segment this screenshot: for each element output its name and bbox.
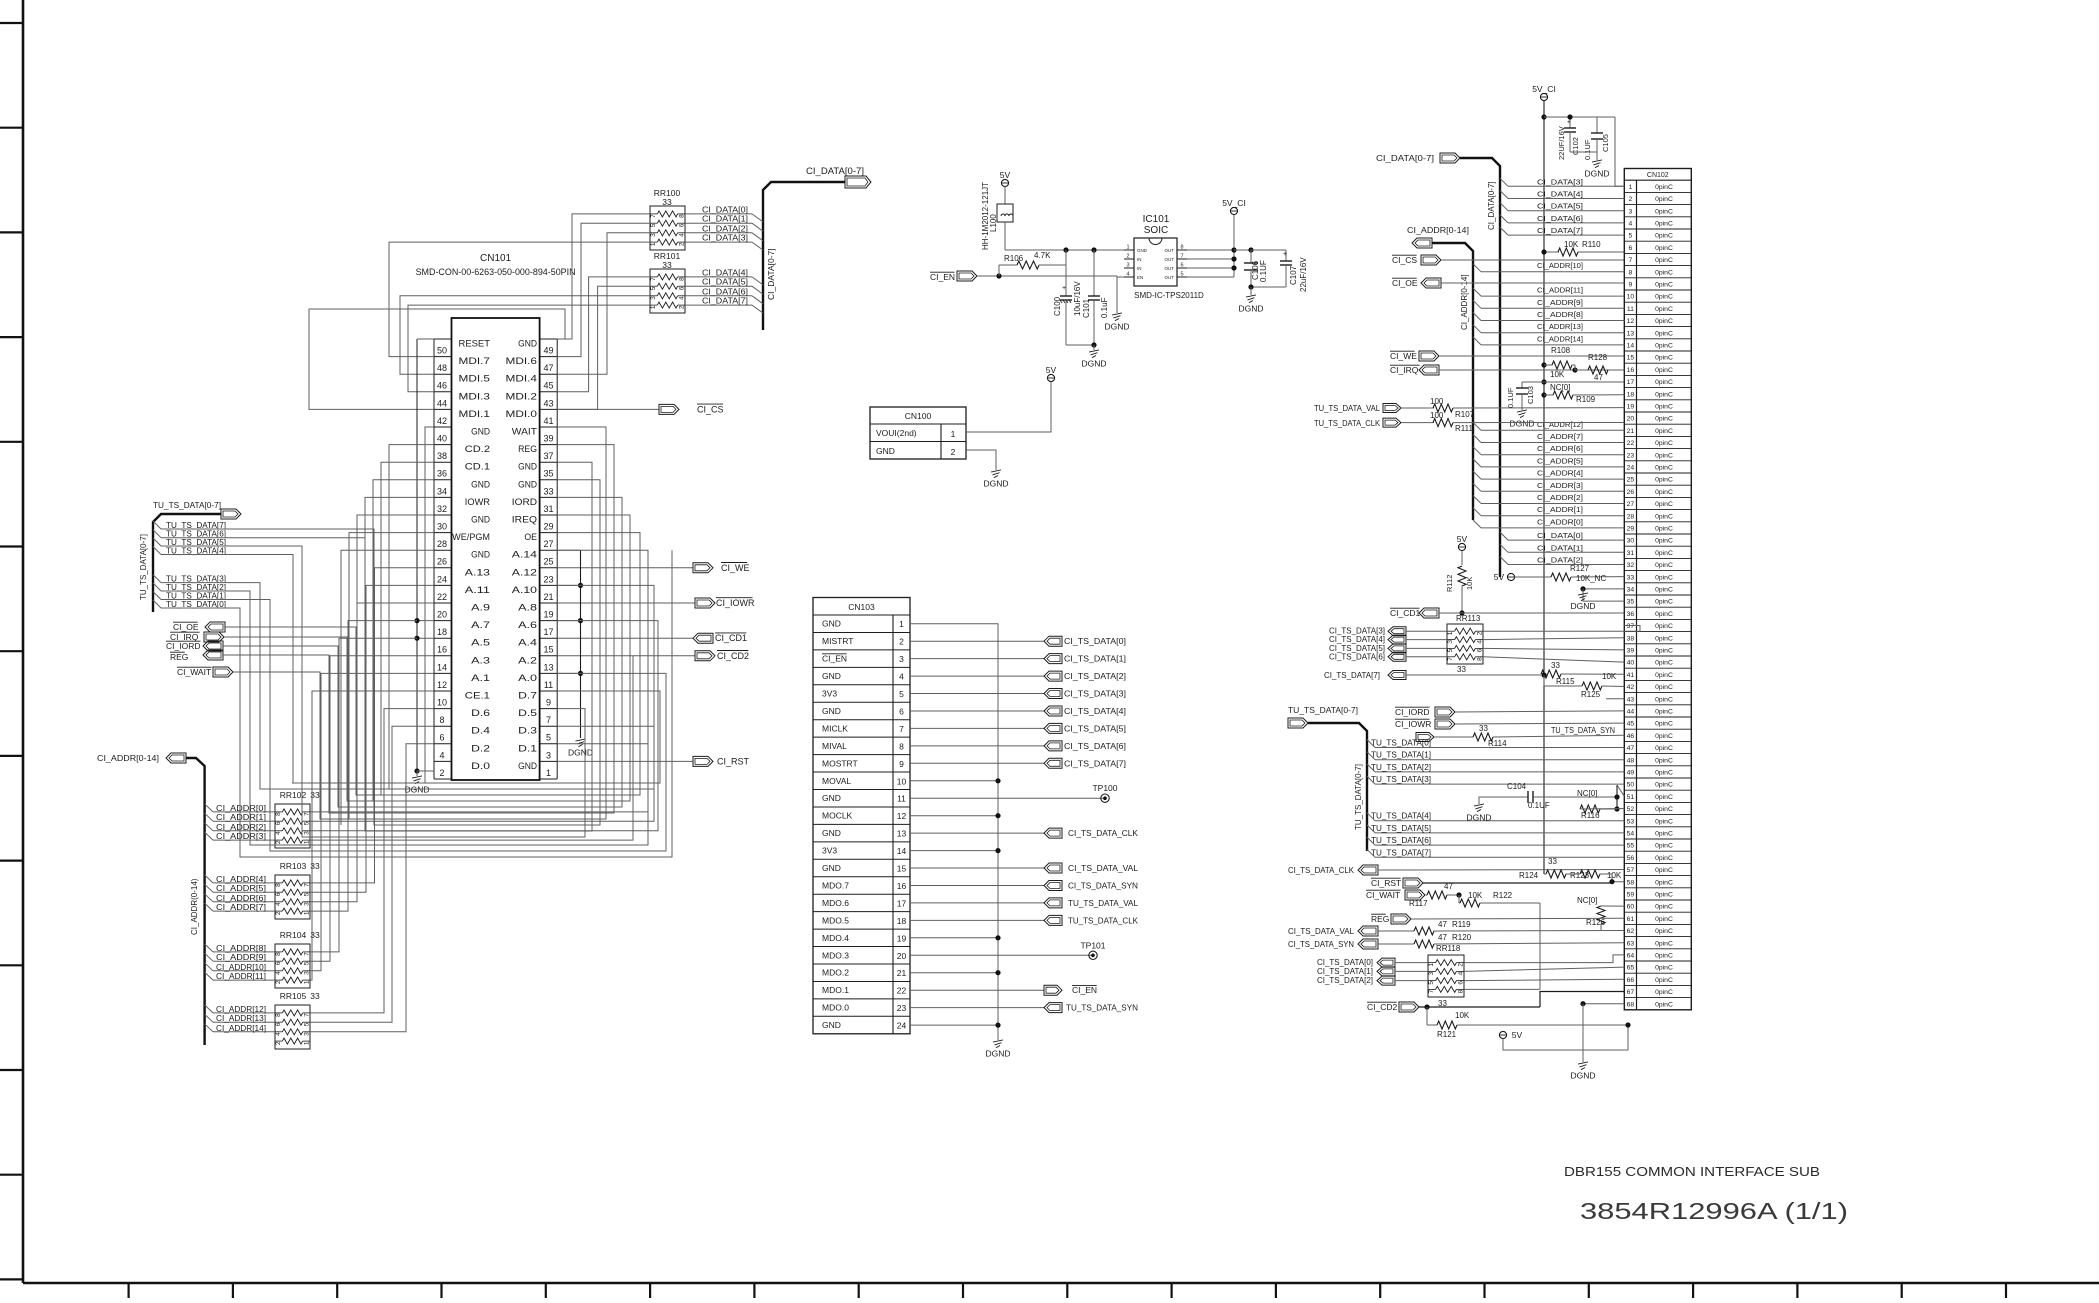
svg-text:0pinC: 0pinC <box>1655 294 1673 301</box>
svg-text:CI_TS_DATA[4]: CI_TS_DATA[4] <box>1329 635 1385 644</box>
svg-text:CI_DATA[0-7]: CI_DATA[0-7] <box>806 166 864 176</box>
svg-text:CI_ADDR[8]: CI_ADDR[8] <box>216 944 266 953</box>
svg-text:12: 12 <box>1627 318 1635 325</box>
svg-text:CI_RST: CI_RST <box>1371 878 1401 888</box>
svg-text:TU_TS_DATA[6]: TU_TS_DATA[6] <box>1371 836 1431 845</box>
wire CI_ADDR[4] to CN102 pin 25 <box>1473 469 1624 480</box>
svg-text:CI_DATA[4]: CI_DATA[4] <box>702 268 748 277</box>
svg-text:DGND: DGND <box>1570 601 1595 611</box>
svg-text:GND: GND <box>1137 248 1148 253</box>
net arrow CI_IOWR <box>557 598 755 608</box>
net arrow CI_EN output <box>910 985 1097 995</box>
svg-text:CI_ADDR[0-14]: CI_ADDR[0-14] <box>97 753 159 763</box>
svg-text:0pinC: 0pinC <box>1655 684 1673 691</box>
svg-text:D.7: D.7 <box>518 691 537 701</box>
svg-text:0.1UF: 0.1UF <box>1583 139 1592 160</box>
svg-text:A.9: A.9 <box>471 603 490 613</box>
wire TU_TS_DATA[7] <box>153 521 226 530</box>
svg-text:CI_DATA[6]: CI_DATA[6] <box>1537 214 1583 223</box>
svg-text:8: 8 <box>1629 269 1633 276</box>
svg-text:5: 5 <box>304 892 311 896</box>
svg-text:CI_DATA[7]: CI_DATA[7] <box>1537 226 1583 235</box>
svg-text:MDO.6: MDO.6 <box>822 898 849 908</box>
test point TP101 <box>910 940 1106 959</box>
svg-text:0pinC: 0pinC <box>1655 233 1673 240</box>
ground DGND below CN101 left <box>404 771 429 795</box>
svg-text:CI_DATA[7]: CI_DATA[7] <box>702 297 748 306</box>
net arrow CI_CS right <box>1392 255 1624 265</box>
capacitor C100 10uF/16V <box>1053 250 1082 345</box>
wire CI_DATA[4] from RR101 <box>685 268 763 285</box>
svg-text:7: 7 <box>1180 254 1183 260</box>
net arrow TU_TS_DATA_VAL <box>910 898 1138 908</box>
svg-text:CI_TS_DATA_SYN: CI_TS_DATA_SYN <box>1288 939 1354 949</box>
svg-text:3: 3 <box>1447 640 1454 644</box>
svg-text:0pinC: 0pinC <box>1655 806 1673 813</box>
svg-text:19: 19 <box>1627 404 1635 411</box>
svg-text:TU_TS_DATA[1]: TU_TS_DATA[1] <box>1371 751 1431 760</box>
svg-text:CI_TS_DATA[7]: CI_TS_DATA[7] <box>1324 671 1380 680</box>
power 5V_CI right of IC101 <box>1222 198 1246 277</box>
svg-text:3: 3 <box>304 902 311 906</box>
svg-text:R121: R121 <box>1437 1030 1457 1039</box>
svg-text:TU_TS_DATA[0-7]: TU_TS_DATA[0-7] <box>139 534 148 600</box>
svg-text:MDI.1: MDI.1 <box>459 409 491 419</box>
resistor R107 100 TU_TS_DATA_VAL <box>1314 397 1624 419</box>
svg-text:CI_DATA[0-7]: CI_DATA[0-7] <box>1487 181 1496 230</box>
svg-text:CI_RST: CI_RST <box>717 756 750 766</box>
svg-text:0pinC: 0pinC <box>1655 391 1673 398</box>
bus CI_DATA[0-7] right net arrow <box>1376 153 1500 577</box>
svg-text:8: 8 <box>679 214 686 218</box>
svg-text:14: 14 <box>437 662 447 672</box>
resistor R124 R123 33 10K <box>1519 857 1624 884</box>
resistor R110 10K <box>1541 240 1624 256</box>
net arrow CI_IRQ left <box>170 632 224 642</box>
wire CI_ADDR[9] tap <box>205 953 275 962</box>
svg-text:0pinC: 0pinC <box>1655 831 1673 838</box>
svg-text:27: 27 <box>1627 501 1635 508</box>
svg-text:7: 7 <box>650 214 657 218</box>
svg-text:CI_CS: CI_CS <box>1392 255 1417 265</box>
svg-text:R124: R124 <box>1519 871 1539 880</box>
svg-text:22: 22 <box>437 592 447 602</box>
svg-text:TU_TS_DATA[4]: TU_TS_DATA[4] <box>1371 812 1431 821</box>
wire MDI bus RR101 to CN101 <box>400 277 650 410</box>
svg-text:VOUI(2nd): VOUI(2nd) <box>876 428 917 438</box>
svg-text:CI_ADDR[4]: CI_ADDR[4] <box>216 875 266 884</box>
svg-text:MIVAL: MIVAL <box>822 741 847 751</box>
svg-text:CI_ADDR[3]: CI_ADDR[3] <box>216 832 266 841</box>
svg-text:51: 51 <box>1627 794 1635 801</box>
svg-text:47: 47 <box>1627 745 1635 752</box>
svg-text:TU_TS_DATA[7]: TU_TS_DATA[7] <box>1371 848 1431 857</box>
svg-text:5: 5 <box>304 821 311 825</box>
svg-text:CI_ADDR[2]: CI_ADDR[2] <box>216 823 266 832</box>
ground DGND below C100/C101 <box>1066 342 1107 368</box>
svg-text:14: 14 <box>1627 343 1635 350</box>
svg-text:0pinC: 0pinC <box>1655 269 1673 276</box>
svg-text:47: 47 <box>1594 373 1603 382</box>
wire TU_TS_DATA[4] to CN102 pin 53 <box>1367 812 1624 821</box>
svg-text:RR113: RR113 <box>1456 614 1481 623</box>
svg-text:R120: R120 <box>1452 933 1472 942</box>
svg-text:5: 5 <box>650 286 657 290</box>
wire CI_ADDR[11] tap <box>205 972 275 981</box>
svg-text:WAIT: WAIT <box>512 427 538 437</box>
svg-text:SOIC: SOIC <box>1144 225 1168 236</box>
svg-text:CI_TS_DATA_CLK: CI_TS_DATA_CLK <box>1068 828 1138 838</box>
svg-text:0pinC: 0pinC <box>1655 648 1673 655</box>
svg-text:CI_ADDR[1]: CI_ADDR[1] <box>216 813 266 822</box>
ground DGND top right <box>1584 117 1624 186</box>
svg-text:MDO.0: MDO.0 <box>822 1003 849 1013</box>
net arrow CI_TS_DATA[5] into RR113 <box>1329 644 1447 653</box>
svg-text:0pinC: 0pinC <box>1655 818 1673 825</box>
wire TU_TS_DATA[6] to CN102 pin 55 <box>1367 836 1624 845</box>
resistor R116 NC[0] <box>1577 789 1624 820</box>
svg-text:1: 1 <box>899 619 904 629</box>
svg-text:100: 100 <box>1430 411 1444 420</box>
net arrow CI_TS_DATA_CLK <box>910 828 1138 838</box>
svg-text:L100: L100 <box>989 214 998 232</box>
svg-text:C107: C107 <box>1289 265 1298 285</box>
net arrow CI_IORD right <box>1395 707 1624 717</box>
svg-text:TP100: TP100 <box>1092 783 1117 793</box>
svg-text:RR118: RR118 <box>1436 944 1461 953</box>
svg-text:21: 21 <box>543 592 553 602</box>
svg-text:0pinC: 0pinC <box>1655 513 1673 520</box>
wire CI_ADDR[0] tap <box>205 804 275 813</box>
svg-text:23: 23 <box>897 1003 907 1013</box>
svg-text:0pinC: 0pinC <box>1655 574 1673 581</box>
svg-text:A.8: A.8 <box>518 603 537 613</box>
svg-text:3: 3 <box>304 971 311 975</box>
svg-text:0pinC: 0pinC <box>1655 282 1673 289</box>
svg-text:CI_ADDR[5]: CI_ADDR[5] <box>1537 456 1583 465</box>
svg-text:0pinC: 0pinC <box>1655 452 1673 459</box>
svg-text:24: 24 <box>897 1021 907 1031</box>
svg-text:TU_TS_DATA_SYN: TU_TS_DATA_SYN <box>1066 1003 1138 1013</box>
svg-text:CI_DATA[6]: CI_DATA[6] <box>702 287 748 296</box>
svg-text:0pinC: 0pinC <box>1655 892 1673 899</box>
svg-text:33: 33 <box>1627 574 1635 581</box>
svg-text:6: 6 <box>275 821 282 825</box>
capacitor C101 0.1uF <box>1082 250 1109 345</box>
wire CI_ADDR[11] to CN102 pin 10 <box>1473 286 1624 297</box>
svg-text:A.11: A.11 <box>465 585 490 595</box>
capacitor C104 0.1UF <box>1466 782 1624 823</box>
svg-text:EN: EN <box>1137 275 1143 280</box>
svg-text:TU_TS_DATA_CLK: TU_TS_DATA_CLK <box>1314 418 1380 428</box>
svg-text:CI_TS_DATA[1]: CI_TS_DATA[1] <box>1064 654 1126 664</box>
svg-text:TU_TS_DATA[2]: TU_TS_DATA[2] <box>1371 763 1431 772</box>
svg-text:45: 45 <box>543 381 553 391</box>
svg-text:OUT: OUT <box>1165 266 1175 271</box>
svg-text:0pinC: 0pinC <box>1655 635 1673 642</box>
svg-text:1: 1 <box>546 768 551 778</box>
svg-text:CI_DATA[1]: CI_DATA[1] <box>1537 543 1583 552</box>
svg-text:33: 33 <box>1548 857 1557 866</box>
svg-text:0pinC: 0pinC <box>1655 696 1673 703</box>
capacitor C107 22uF/16V <box>1248 250 1308 292</box>
svg-text:D.2: D.2 <box>471 743 490 753</box>
svg-text:MDI.5: MDI.5 <box>459 374 491 384</box>
svg-text:OUT: OUT <box>1165 248 1175 253</box>
wire CI_DATA[0] to CN102 pin 30 <box>1500 531 1624 540</box>
wire CI_ADDR[1] tap <box>205 813 275 822</box>
svg-text:0pinC: 0pinC <box>1655 489 1673 496</box>
svg-text:GND: GND <box>822 671 841 681</box>
svg-text:0pinC: 0pinC <box>1655 221 1673 228</box>
svg-text:R112: R112 <box>1445 575 1454 592</box>
svg-text:IOWR: IOWR <box>465 497 491 507</box>
svg-text:35: 35 <box>1627 599 1635 606</box>
wire CI_DATA[5] to CN102 pin 3 <box>1500 202 1624 211</box>
svg-text:5V: 5V <box>1000 170 1011 180</box>
svg-text:8: 8 <box>275 883 282 887</box>
svg-text:MDO.3: MDO.3 <box>822 950 849 960</box>
svg-text:2: 2 <box>275 911 282 915</box>
svg-text:A.10: A.10 <box>512 585 537 595</box>
svg-text:8: 8 <box>1477 657 1484 661</box>
svg-text:WE/PGM: WE/PGM <box>452 532 490 542</box>
svg-text:0pinC: 0pinC <box>1655 660 1673 667</box>
wire TU_TS_DATA[5] <box>153 538 226 547</box>
resistor R126 NC[0] <box>1577 896 1624 930</box>
svg-text:15: 15 <box>897 864 907 874</box>
net arrow CI_TS_DATA[4] from CN103 <box>910 706 1126 716</box>
svg-text:1: 1 <box>1629 184 1633 191</box>
svg-text:0pinC: 0pinC <box>1655 379 1673 386</box>
svg-text:5: 5 <box>899 689 904 699</box>
svg-text:24: 24 <box>437 574 447 584</box>
connector CN103 table <box>813 598 910 1034</box>
svg-text:CI_EN: CI_EN <box>822 654 847 664</box>
svg-text:IN: IN <box>1137 266 1142 271</box>
svg-text:0pinC: 0pinC <box>1655 343 1673 350</box>
svg-text:CI_ADDR[9]: CI_ADDR[9] <box>216 953 266 962</box>
svg-text:13: 13 <box>897 829 907 839</box>
svg-text:MDI.0: MDI.0 <box>506 409 538 419</box>
svg-text:R115: R115 <box>1556 677 1575 686</box>
wire CI_ADDR[10] tap <box>205 963 275 972</box>
svg-text:5: 5 <box>304 1022 311 1026</box>
svg-text:R114: R114 <box>1488 739 1507 748</box>
svg-text:10uF/16V: 10uF/16V <box>1073 281 1082 316</box>
wire RR118 outputs to CN102 pins 64-66 <box>1464 955 1624 990</box>
net arrow CI_CD2 right <box>1367 992 1624 1013</box>
svg-text:37: 37 <box>1627 623 1635 630</box>
svg-text:MDI.7: MDI.7 <box>459 356 491 366</box>
CN101 pin name labels <box>452 339 537 771</box>
svg-text:GND: GND <box>822 619 841 629</box>
wire TU_TS_DATA[1] <box>153 592 226 601</box>
svg-text:1: 1 <box>650 305 657 309</box>
svg-text:7: 7 <box>304 883 311 887</box>
drawing number 3854R12996A (1/1) <box>1580 1198 1848 1224</box>
svg-text:DGND: DGND <box>1081 359 1106 369</box>
net arrow CI_TS_DATA[1] from CN103 <box>910 654 1126 664</box>
wire CI_DATA[7] from RR101 <box>685 297 763 314</box>
svg-text:32: 32 <box>437 504 447 514</box>
svg-text:19: 19 <box>543 610 553 620</box>
svg-text:R107: R107 <box>1455 410 1475 419</box>
svg-text:SMD-IC-TPS2011D: SMD-IC-TPS2011D <box>1134 291 1204 300</box>
svg-text:+: + <box>1062 285 1066 292</box>
svg-text:5: 5 <box>1447 648 1454 652</box>
svg-text:CI_ADDR(0-14): CI_ADDR(0-14) <box>190 878 199 935</box>
svg-text:26: 26 <box>437 557 447 567</box>
svg-text:4: 4 <box>275 902 282 906</box>
svg-text:49: 49 <box>1627 770 1635 777</box>
svg-text:17: 17 <box>543 627 553 637</box>
svg-text:R122: R122 <box>1493 891 1513 900</box>
svg-text:11: 11 <box>897 794 906 804</box>
svg-text:5V: 5V <box>1512 1030 1523 1040</box>
svg-text:57: 57 <box>1627 867 1635 874</box>
svg-text:CI_ADDR[8]: CI_ADDR[8] <box>1537 310 1583 319</box>
svg-text:CI_DATA[0]: CI_DATA[0] <box>702 205 748 214</box>
svg-text:DGND: DGND <box>1570 1071 1595 1081</box>
svg-text:0pinC: 0pinC <box>1655 1001 1673 1008</box>
svg-text:CI_ADDR[7]: CI_ADDR[7] <box>1537 432 1583 441</box>
svg-text:C103: C103 <box>1526 386 1535 404</box>
svg-text:9: 9 <box>546 698 551 708</box>
wire CI_ADDR[9] to CN102 pin 11 <box>1473 298 1624 309</box>
resistor network RR102 33ohm <box>275 790 320 848</box>
svg-text:CI_ADDR[0]: CI_ADDR[0] <box>216 804 266 813</box>
svg-text:CI_IOWR: CI_IOWR <box>1395 719 1431 729</box>
svg-text:23: 23 <box>1627 452 1635 459</box>
svg-text:CI_OE: CI_OE <box>1392 278 1418 288</box>
svg-text:10K: 10K <box>1468 891 1483 900</box>
wire CI_ADDR[3] tap <box>205 832 275 841</box>
net arrow CI_TS_DATA[4] into RR113 <box>1329 635 1447 644</box>
svg-text:0pinC: 0pinC <box>1655 757 1673 764</box>
svg-text:10: 10 <box>1627 294 1635 301</box>
svg-text:C101: C101 <box>1082 298 1091 318</box>
svg-text:CI_ADDR[7]: CI_ADDR[7] <box>216 903 266 912</box>
svg-text:REG: REG <box>518 444 537 454</box>
net arrow CI_TS_DATA_VAL right with R119 47 <box>1288 920 1624 936</box>
svg-text:20: 20 <box>437 610 447 620</box>
svg-text:MOSTRT: MOSTRT <box>822 758 858 768</box>
svg-text:6: 6 <box>275 961 282 965</box>
svg-text:44: 44 <box>1627 709 1635 716</box>
svg-text:50: 50 <box>1627 782 1635 789</box>
svg-text:CI_WE: CI_WE <box>721 563 750 573</box>
svg-text:NC[0]: NC[0] <box>1550 383 1570 392</box>
svg-text:TU_TS_DATA[0-7]: TU_TS_DATA[0-7] <box>1288 705 1358 715</box>
net arrow CI_IRQ right <box>1390 365 1624 375</box>
svg-text:C100: C100 <box>1053 296 1062 316</box>
svg-text:6: 6 <box>275 892 282 896</box>
svg-text:2: 2 <box>275 840 282 844</box>
svg-text:9: 9 <box>899 759 904 769</box>
svg-text:5: 5 <box>1428 981 1435 985</box>
svg-text:CI_CD1: CI_CD1 <box>715 633 747 643</box>
svg-text:OE: OE <box>524 532 537 542</box>
svg-text:CI_ADDR[10]: CI_ADDR[10] <box>1537 261 1583 270</box>
svg-text:0pinC: 0pinC <box>1655 928 1673 935</box>
svg-text:TU_TS_DATA[0-7]: TU_TS_DATA[0-7] <box>1354 764 1363 830</box>
net arrow TU_TS_DATA_SYN from CN103 <box>910 1003 1138 1013</box>
wire CI_DATA[3] to CN102 pin 1 <box>1500 177 1624 186</box>
net arrow CI_TS_DATA[2] from CN103 <box>910 671 1126 681</box>
wire RR113 outputs to CN102 pins 37-40 <box>1483 626 1640 663</box>
wire mesh CN101 left pins to RR outputs <box>292 427 434 1032</box>
svg-text:10K: 10K <box>1455 1011 1470 1020</box>
svg-text:MOVAL: MOVAL <box>822 776 851 786</box>
wire stub CN102 pin 43 <box>1606 698 1624 700</box>
wire CI_ADDR[7] to CN102 pin 22 <box>1473 432 1624 443</box>
svg-text:11: 11 <box>544 680 553 690</box>
svg-text:6: 6 <box>1477 648 1484 652</box>
svg-text:0pinC: 0pinC <box>1655 257 1673 264</box>
svg-text:NC[0]: NC[0] <box>1577 896 1597 905</box>
net arrow CI_TS_DATA[7] with R115 <box>1324 661 1624 686</box>
svg-text:CI_TS_DATA[2]: CI_TS_DATA[2] <box>1064 671 1126 681</box>
svg-text:8: 8 <box>439 715 444 725</box>
net arrow CI_WE <box>557 563 749 573</box>
svg-text:4.7K: 4.7K <box>1034 251 1051 260</box>
svg-text:2: 2 <box>439 768 444 778</box>
svg-text:CN101: CN101 <box>480 253 512 264</box>
svg-text:4: 4 <box>1126 272 1129 278</box>
net arrow CI_TS_DATA_SYN right with R120 47 <box>1288 933 1624 949</box>
svg-text:MDI.2: MDI.2 <box>506 391 538 401</box>
svg-text:2: 2 <box>1458 963 1465 967</box>
svg-text:46: 46 <box>437 381 447 391</box>
wire CI_ADDR[8] tap <box>205 944 275 953</box>
svg-text:GND: GND <box>518 479 537 489</box>
svg-text:5V: 5V <box>1494 572 1505 582</box>
svg-text:0pinC: 0pinC <box>1655 623 1673 630</box>
svg-text:5: 5 <box>650 223 657 227</box>
net arrow CI_CD1 right <box>1390 608 1624 618</box>
svg-text:OUT: OUT <box>1165 275 1175 280</box>
net arrow CI_CD1 <box>557 633 747 643</box>
svg-text:CE.1: CE.1 <box>465 691 490 701</box>
svg-text:IN: IN <box>1137 257 1142 262</box>
wire TU_TS_DATA[0] <box>153 600 226 609</box>
svg-text:CN102: CN102 <box>1647 172 1669 179</box>
wire TU_TS_DATA[3] <box>153 575 226 584</box>
svg-text:4: 4 <box>275 971 282 975</box>
svg-text:TU_TS_DATA_VAL: TU_TS_DATA_VAL <box>1314 403 1380 413</box>
svg-text:0pinC: 0pinC <box>1655 330 1673 337</box>
svg-text:CI_TS_DATA_SYN: CI_TS_DATA_SYN <box>1068 881 1138 891</box>
svg-text:RR104: RR104 <box>280 930 307 940</box>
net arrow CI_OE right <box>1392 278 1624 288</box>
svg-text:7: 7 <box>899 724 904 734</box>
net arrow CI_TS_DATA[5] from CN103 <box>910 723 1126 733</box>
svg-text:CI_DATA[0-7]: CI_DATA[0-7] <box>1376 153 1434 163</box>
svg-text:0pinC: 0pinC <box>1655 709 1673 716</box>
svg-text:2: 2 <box>1629 196 1633 203</box>
svg-text:CI_CD1: CI_CD1 <box>1390 608 1421 618</box>
svg-text:64: 64 <box>1627 953 1635 960</box>
svg-text:CI_ADDR[14]: CI_ADDR[14] <box>1537 334 1583 343</box>
svg-text:0pinC: 0pinC <box>1655 672 1673 679</box>
wire CI_DATA[5] from RR101 <box>685 278 763 295</box>
bus CI_DATA[0-7] top net arrow <box>763 166 871 330</box>
svg-text:IREQ: IREQ <box>512 515 537 525</box>
net arrow CI_TS_DATA[1] into RR118 <box>1317 967 1428 976</box>
net arrow CI_TS_DATA[0] from CN103 <box>910 636 1126 646</box>
inductor L100 HH-1M2012-121JT <box>981 182 1013 250</box>
